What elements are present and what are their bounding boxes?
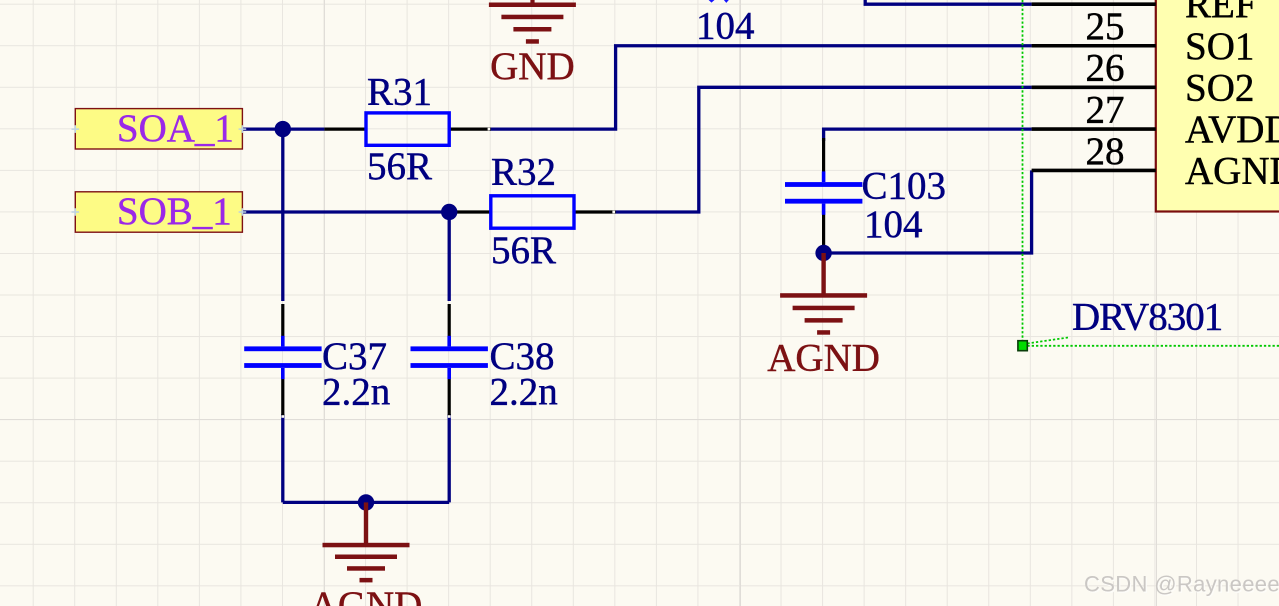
svg-text:SO1: SO1 bbox=[1185, 25, 1254, 68]
wire C37 bottom down bbox=[281, 414, 284, 502]
pin 26 SO2 stub bbox=[1032, 86, 1156, 90]
power port AGND (middle) bbox=[767, 253, 880, 380]
watermark bbox=[1084, 571, 1279, 597]
capacitor C37 bbox=[244, 304, 390, 416]
net label SOA_1 bbox=[72, 107, 247, 150]
svg-text:GND: GND bbox=[490, 45, 575, 88]
svg-text:2.2n: 2.2n bbox=[322, 371, 390, 414]
svg-text:R32: R32 bbox=[491, 151, 556, 194]
wire bottom horizontal to AGND bbox=[283, 501, 449, 504]
svg-text:SO2: SO2 bbox=[1185, 66, 1254, 109]
selection guide green dotted lines bbox=[1023, 0, 1279, 346]
capacitor C103 bbox=[785, 138, 946, 247]
power port AGND (bottom) bbox=[310, 502, 423, 606]
pin numbers 25 26 27 28 bbox=[1086, 5, 1125, 173]
wire SOA_1 to R31 bbox=[242, 127, 324, 130]
svg-text:104: 104 bbox=[864, 203, 923, 246]
svg-text:C103: C103 bbox=[862, 165, 947, 208]
pin 25 SO1 stub bbox=[1032, 44, 1156, 48]
svg-text:DRV8301: DRV8301 bbox=[1072, 296, 1222, 339]
svg-text:28: 28 bbox=[1086, 130, 1125, 173]
svg-text:25: 25 bbox=[1086, 5, 1125, 48]
junction C103/AGND bbox=[815, 245, 831, 261]
svg-text:SOB_1: SOB_1 bbox=[117, 190, 232, 233]
resistor R32 bbox=[449, 151, 615, 273]
net label SOB_1 bbox=[72, 190, 247, 233]
pin-tip notches bbox=[282, 128, 616, 418]
svg-text:56R: 56R bbox=[367, 145, 432, 188]
svg-text:AGND: AGND bbox=[767, 337, 880, 380]
svg-text:26: 26 bbox=[1086, 47, 1125, 90]
wire REF from top bbox=[865, 0, 1031, 4]
svg-text:104: 104 bbox=[696, 4, 755, 47]
wire AVDD to C103 top bbox=[824, 128, 1032, 142]
wire SOB_1 to R32 bbox=[242, 210, 449, 213]
wire C103 bottom to pin28 AGND bbox=[824, 170, 1032, 253]
wire R32 to pin26 SO2 bbox=[616, 87, 1032, 212]
svg-text:56R: 56R bbox=[491, 229, 556, 272]
svg-text:2.2n: 2.2n bbox=[490, 371, 558, 414]
svg-text:AGND: AGND bbox=[310, 584, 423, 606]
svg-text:27: 27 bbox=[1086, 88, 1125, 131]
pin 27 AVDD stub bbox=[1032, 127, 1156, 131]
IC U1 DRV8301 body bbox=[1156, 0, 1279, 212]
svg-text:AVDD: AVDD bbox=[1185, 108, 1279, 151]
pin 28 AGND stub bbox=[1032, 169, 1156, 173]
wire SOB junction down to C38 bbox=[448, 212, 451, 301]
wire R31 to pin25 SO1 bbox=[489, 46, 1032, 129]
pin REF stub bbox=[1032, 2, 1156, 6]
junction SOB/C38 bbox=[441, 204, 457, 220]
svg-text:SOA_1: SOA_1 bbox=[117, 107, 234, 150]
resistor R31 bbox=[324, 71, 490, 189]
pin names REF SO1 SO2 AVDD AGND bbox=[1185, 0, 1279, 192]
wire C38 bottom down bbox=[448, 414, 451, 502]
power port GND bbox=[489, 0, 576, 88]
capacitor C38 bbox=[411, 304, 558, 416]
svg-text:AGND: AGND bbox=[1185, 149, 1279, 192]
selection handle green square bbox=[1018, 341, 1027, 351]
wire SOA junction down to C37 bbox=[281, 128, 284, 302]
svg-text:REF: REF bbox=[1185, 0, 1257, 26]
junction bottom AGND bbox=[358, 494, 374, 510]
svg-text:CSDN @Rayneeee: CSDN @Rayneeee bbox=[1084, 571, 1279, 596]
capacitor value 104 (cap off-screen top) bbox=[696, 0, 755, 47]
junction SOA/C37 bbox=[275, 121, 291, 137]
svg-text:R31: R31 bbox=[367, 71, 432, 114]
